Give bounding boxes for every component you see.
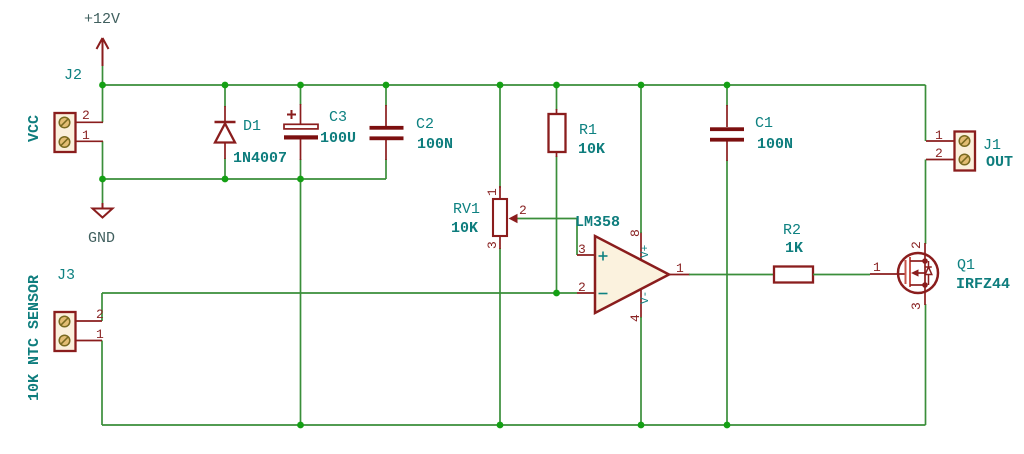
resistor R1: [549, 109, 566, 157]
svg-text:1: 1: [485, 188, 500, 196]
wire: bottom bus: [102, 424, 926, 426]
capacitor C1: [710, 105, 744, 161]
svg-text:1N4007: 1N4007: [233, 150, 287, 167]
wire: GND column to bottom bus: [300, 179, 302, 425]
svg-text:2: 2: [96, 307, 104, 322]
svg-text:D1: D1: [243, 118, 261, 135]
svg-text:100N: 100N: [417, 136, 453, 153]
junction dots top bus: [99, 82, 730, 89]
svg-text:3: 3: [578, 242, 586, 257]
diode D1: [215, 106, 236, 159]
wire: C1 top stub: [726, 85, 728, 106]
svg-text:V-: V-: [640, 291, 652, 304]
wire: top +12V bus: [103, 84, 926, 86]
potentiometer RV1: [493, 186, 518, 249]
op-amp U1 LM358: [577, 232, 690, 318]
connector J3: [55, 312, 103, 351]
capacitor C2: [370, 105, 404, 160]
wire: D1 bottom stub: [224, 158, 226, 179]
junction dot inverting wire: [553, 290, 560, 297]
wire: R1 bottom to inverting wire: [556, 156, 558, 293]
capacitor C3 (polarized): [284, 104, 318, 160]
wire: +12V stem to bus: [102, 62, 104, 85]
wire: C3 column (top bus to GND rail): [300, 85, 302, 179]
wire: V- column to bus: [640, 317, 642, 425]
svg-text:RV1: RV1: [453, 201, 480, 218]
svg-text:100U: 100U: [320, 130, 356, 147]
svg-text:C1: C1: [755, 115, 773, 132]
svg-text:1: 1: [873, 260, 881, 275]
svg-text:IRFZ44: IRFZ44: [956, 276, 1010, 293]
wire: GND rail: [103, 178, 387, 180]
wire: C2 bottom stub: [385, 159, 387, 179]
connector J1: [926, 132, 975, 171]
wire: J3 pin1 drop to bus: [101, 341, 103, 426]
wire: J1 pin1 riser from bus: [925, 85, 927, 141]
svg-text:J3: J3: [57, 267, 75, 284]
wire: RV1 wiper to op-amp: [518, 219, 578, 256]
wire: V+ column: [640, 85, 642, 233]
svg-text:C2: C2: [416, 116, 434, 133]
wire: J3 pin2 riser to sensor wire: [101, 293, 103, 321]
svg-text:2: 2: [935, 146, 943, 161]
connector J2: [55, 113, 104, 152]
wire: RV1 top column: [499, 85, 501, 188]
svg-text:GND: GND: [88, 230, 115, 247]
svg-text:1: 1: [935, 128, 943, 143]
ground symbol: [93, 203, 113, 218]
svg-text:2: 2: [82, 108, 90, 123]
svg-text:R2: R2: [783, 222, 801, 239]
wire: J2 pin2 riser: [102, 85, 104, 122]
transistor Q1 IRFZ44: [870, 243, 938, 305]
wire: GND symbol stem: [102, 179, 104, 203]
svg-text:1: 1: [676, 261, 684, 276]
wire: sensor wire J3 to inverting input: [102, 292, 577, 294]
svg-text:J2: J2: [64, 67, 82, 84]
svg-text:10K: 10K: [451, 220, 478, 237]
svg-text:OUT: OUT: [986, 154, 1013, 171]
svg-text:2: 2: [578, 280, 586, 295]
wire: R2 to Q1 gate: [813, 274, 870, 276]
junction dots GND rail: [99, 176, 304, 183]
svg-text:LM358: LM358: [575, 214, 620, 231]
svg-text:R1: R1: [579, 122, 597, 139]
wire: C1 bottom to bus: [726, 160, 728, 425]
wire: R1 top stub: [556, 85, 558, 110]
svg-text:V+: V+: [640, 245, 652, 258]
svg-text:3: 3: [909, 302, 924, 310]
svg-text:2: 2: [909, 241, 924, 249]
resistor R2: [774, 267, 813, 283]
svg-text:1: 1: [96, 327, 104, 342]
wire: op-amp output to R2: [689, 274, 774, 276]
svg-text:10K NTC SENSOR: 10K NTC SENSOR: [26, 275, 43, 401]
wire: J1 pin2 to Q1 drain: [925, 160, 927, 245]
svg-text:2: 2: [519, 203, 527, 218]
wire: Q1 source to bottom bus: [925, 304, 927, 425]
svg-text:+12V: +12V: [84, 11, 120, 28]
svg-text:10K: 10K: [578, 141, 605, 158]
svg-text:100N: 100N: [757, 136, 793, 153]
junction dots bottom bus: [297, 422, 730, 429]
wire: D1 top stub: [224, 85, 226, 107]
wire: RV1 bottom column to bus: [499, 248, 501, 425]
svg-text:Q1: Q1: [957, 257, 975, 274]
svg-text:3: 3: [485, 241, 500, 249]
svg-text:1K: 1K: [785, 240, 803, 257]
svg-text:J1: J1: [983, 137, 1001, 154]
svg-text:1: 1: [82, 128, 90, 143]
wire: C2 top stub: [385, 85, 387, 106]
wire: J2 pin1 drop: [102, 141, 104, 179]
power symbol +12V: [97, 38, 109, 66]
svg-text:VCC: VCC: [26, 115, 43, 142]
svg-text:C3: C3: [329, 109, 347, 126]
